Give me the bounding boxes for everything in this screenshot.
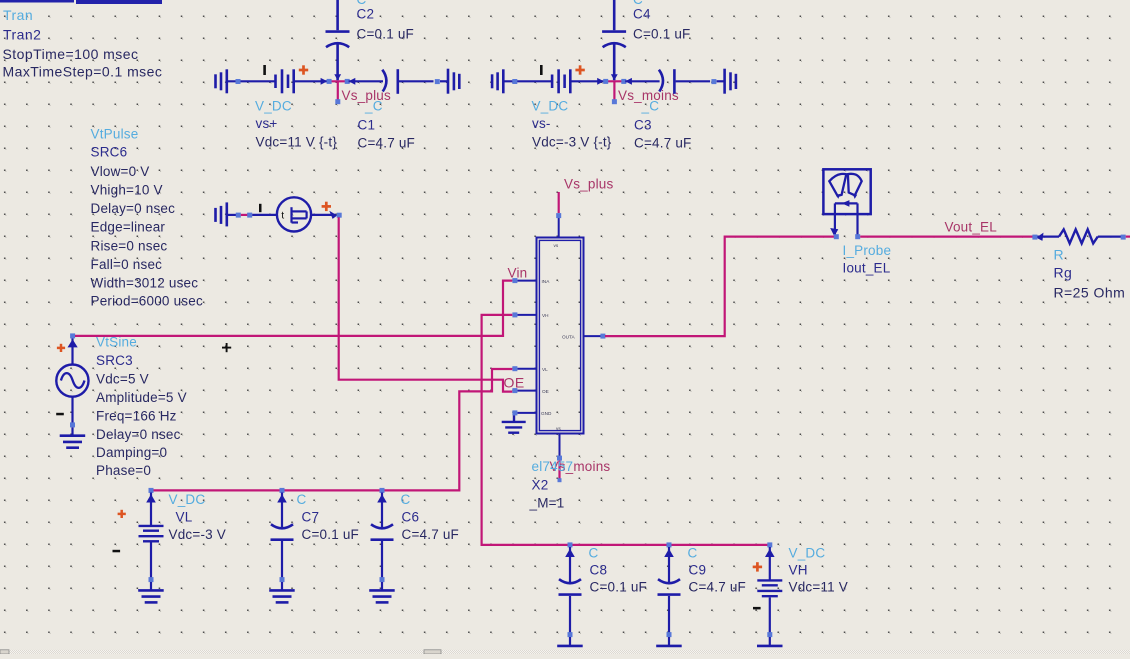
svg-text:OE: OE xyxy=(542,389,549,394)
wire to source circle xyxy=(252,214,277,216)
svg-text:C=0.1 uF: C=0.1 uF xyxy=(590,580,648,595)
capacitor C7 labels xyxy=(297,492,360,542)
resistor R Rg xyxy=(1036,229,1121,243)
svg-text:INA: INA xyxy=(542,279,551,284)
ground vs- chain left xyxy=(492,69,503,93)
svg-text:Amplitude=5 V: Amplitude=5 V xyxy=(96,390,187,405)
svg-text:C3: C3 xyxy=(634,118,652,133)
svg-text:vs+: vs+ xyxy=(256,116,278,131)
capacitor C6 labels xyxy=(401,492,460,542)
svg-text:C: C xyxy=(401,492,411,507)
svg-text:C9: C9 xyxy=(689,563,707,578)
I_Probe pin squares xyxy=(834,234,839,239)
svg-text:GND: GND xyxy=(541,411,552,416)
pin square xyxy=(236,213,241,218)
svg-text:R: R xyxy=(1054,246,1065,262)
VtPulse SRC6 labels xyxy=(91,127,203,309)
minus sign VH xyxy=(753,607,761,610)
svg-text:R=25 Ohm: R=25 Ohm xyxy=(1054,284,1126,300)
plus sign VL xyxy=(118,510,126,518)
svg-text:Vin: Vin xyxy=(508,266,528,281)
I_Probe meter xyxy=(823,169,870,234)
current label I xyxy=(263,65,266,75)
svg-text:C=0.1 uF: C=0.1 uF xyxy=(633,27,691,42)
svg-text:V_DC: V_DC xyxy=(169,492,206,507)
svg-text:C=4.7 uF: C=4.7 uF xyxy=(689,580,747,595)
V_DC vs- labels xyxy=(532,99,612,150)
svg-text:Vdc=11 V: Vdc=11 V xyxy=(789,580,849,595)
node Vs_moins junction xyxy=(597,74,632,104)
VtSine SRC3 labels xyxy=(96,335,187,479)
ground C9 xyxy=(656,646,682,652)
wire SRC3 to INA pin (node Vin) xyxy=(75,281,512,336)
ground VH xyxy=(757,646,783,652)
VtPulse source SRC6 xyxy=(277,197,311,231)
svg-text:_M=1: _M=1 xyxy=(529,496,565,511)
svg-text:Vlow=0 V: Vlow=0 V xyxy=(91,164,150,179)
V_DC VH battery xyxy=(757,542,782,645)
ground C8 xyxy=(557,646,583,652)
Tran controller box edge xyxy=(0,0,162,4)
svg-text:Vdc=-3 V {-t}: Vdc=-3 V {-t} xyxy=(532,135,612,150)
wire stub node Vs_plus above X2 xyxy=(558,192,560,213)
svg-text:C=4.7 uF: C=4.7 uF xyxy=(634,136,692,151)
pin square C3 right xyxy=(711,79,716,84)
plus sign SRC6 xyxy=(322,202,331,211)
scrollbar strip xyxy=(0,650,1130,654)
pin square xyxy=(337,213,342,218)
wire node to C3 xyxy=(625,80,659,82)
svg-text:C=0.1 uF: C=0.1 uF xyxy=(357,27,415,42)
svg-text:Tran2: Tran2 xyxy=(3,27,41,43)
capacitor C7 xyxy=(271,488,294,590)
wire VH pin to bottom rail xyxy=(482,315,768,545)
svg-text:_C: _C xyxy=(641,99,660,114)
svg-text:Rise=0 nsec: Rise=0 nsec xyxy=(91,239,168,254)
ground vs+ chain right xyxy=(448,69,459,94)
svg-text:SRC3: SRC3 xyxy=(96,353,133,368)
svg-text:C7: C7 xyxy=(302,510,320,525)
wire battery to node Vs_plus xyxy=(294,80,327,82)
svg-text:Vdc=11 V {-t}: Vdc=11 V {-t} xyxy=(256,135,338,150)
svg-text:OE: OE xyxy=(504,375,525,391)
wire SRC6 to corner xyxy=(311,214,336,216)
minus sign VL xyxy=(113,550,121,553)
wire OUTA to I_Probe xyxy=(605,237,834,337)
svg-text:Delay=0 nsec: Delay=0 nsec xyxy=(91,201,176,216)
node Vs_plus junction xyxy=(321,74,356,104)
wire R to edge xyxy=(1126,236,1130,238)
svg-text:Vout_EL: Vout_EL xyxy=(945,219,998,234)
ground VL xyxy=(138,590,164,602)
ground VtPulse xyxy=(216,202,227,226)
svg-text:C=4.7 uF: C=4.7 uF xyxy=(402,527,460,542)
plus marker on wire xyxy=(222,343,231,352)
svg-text:Delay=0 nsec: Delay=0 nsec xyxy=(96,427,181,442)
plus sign vs- xyxy=(575,65,584,74)
svg-text:Edge=linear: Edge=linear xyxy=(91,220,166,235)
resistor pin squares xyxy=(1032,235,1037,240)
wire ground to V_DC vs- xyxy=(503,80,552,82)
svg-text:Tran: Tran xyxy=(3,7,33,23)
resistor R labels xyxy=(1054,246,1126,300)
svg-text:VtPulse: VtPulse xyxy=(91,127,139,142)
svg-text:VH: VH xyxy=(542,313,549,318)
X2 labels el7457 Vs_moins overlap xyxy=(529,459,611,511)
svg-text:X2: X2 xyxy=(532,478,549,493)
minus sign SRC3 xyxy=(56,413,64,416)
svg-text:vs: vs xyxy=(556,426,561,431)
wire battery to node Vs_moins xyxy=(570,80,603,82)
plus sign vs+ xyxy=(299,65,308,74)
svg-text:SRC6: SRC6 xyxy=(91,145,128,160)
svg-text:vs-: vs- xyxy=(532,116,551,131)
svg-text:_C: _C xyxy=(364,99,383,114)
current label I xyxy=(259,204,262,212)
plus sign SRC3 xyxy=(57,344,65,352)
svg-text:Width=3012 usec: Width=3012 usec xyxy=(91,276,199,291)
wire ground to V_DC vs+ xyxy=(227,80,276,82)
V_DC vs+ labels xyxy=(255,99,337,150)
svg-text:OUTA: OUTA xyxy=(562,335,576,340)
capacitor C4 xyxy=(602,0,626,80)
VtSine source SRC3 xyxy=(56,333,88,435)
svg-text:V_DC: V_DC xyxy=(255,99,292,114)
wire node to C1 xyxy=(349,80,383,82)
V_DC vs+ battery xyxy=(276,69,294,93)
svg-text:Vdc=-3 V: Vdc=-3 V xyxy=(169,527,227,542)
svg-text:vs: vs xyxy=(554,243,559,248)
pin square xyxy=(247,213,252,218)
capacitor C1 labels xyxy=(358,99,416,151)
svg-text:Phase=0: Phase=0 xyxy=(96,463,151,478)
svg-text:C2: C2 xyxy=(357,7,375,22)
ground C7 xyxy=(269,590,295,602)
svg-text:VH: VH xyxy=(789,563,808,578)
svg-text:MaxTimeStep=0.1 msec: MaxTimeStep=0.1 msec xyxy=(3,64,163,80)
capacitor C8 labels xyxy=(589,545,648,594)
plus sign VH xyxy=(753,562,762,571)
svg-text:Iout_EL: Iout_EL xyxy=(843,260,891,275)
pin square xyxy=(512,79,517,84)
svg-text:C8: C8 xyxy=(590,563,608,578)
I_Probe bracket arrow xyxy=(842,200,850,207)
svg-text:C: C xyxy=(688,545,698,560)
svg-text:Damping=0: Damping=0 xyxy=(96,445,167,460)
pin square small xyxy=(558,478,562,482)
capacitor C8 xyxy=(559,542,582,645)
pin stubs X2 xyxy=(517,218,601,456)
svg-text:el7457: el7457 xyxy=(532,459,574,474)
svg-text:StopTime=100 msec: StopTime=100 msec xyxy=(3,46,139,62)
V_DC vs- battery xyxy=(552,69,570,93)
svg-text:V_DC: V_DC xyxy=(532,99,569,114)
svg-text:VL: VL xyxy=(176,510,193,525)
capacitor C3 labels xyxy=(634,99,692,151)
ground X2 GND pin xyxy=(502,415,526,432)
svg-text:C: C xyxy=(297,492,307,507)
op-amp X2 el7457 body xyxy=(537,238,584,434)
svg-text:Vs_plus: Vs_plus xyxy=(564,177,613,192)
ground vs- chain right xyxy=(725,69,736,94)
wire I_Probe to R xyxy=(860,236,1033,238)
svg-text:I_Probe: I_Probe xyxy=(843,243,892,258)
svg-text:C=0.1 uF: C=0.1 uF xyxy=(302,527,360,542)
svg-text:C=4.7 uF: C=4.7 uF xyxy=(358,136,416,151)
pin name labels X2 xyxy=(541,243,576,431)
I_Probe leg arrow xyxy=(830,228,838,236)
ground SRC3 xyxy=(60,436,85,448)
V_DC VL labels xyxy=(169,492,227,542)
capacitor C6 xyxy=(371,488,394,590)
pin square C1 right xyxy=(435,79,440,84)
svg-text:C: C xyxy=(589,545,599,560)
svg-text:C4: C4 xyxy=(633,7,651,22)
svg-text:C1: C1 xyxy=(358,118,376,133)
capacitor C3 xyxy=(659,69,724,94)
capacitor C9 xyxy=(658,542,681,645)
wire ground to SRC6 xyxy=(227,214,237,216)
wire SRC6 to OE pin xyxy=(339,217,513,391)
wire VL battery to VL pin xyxy=(151,369,512,490)
svg-text:Rg: Rg xyxy=(1054,264,1073,280)
svg-text:C6: C6 xyxy=(402,510,420,525)
svg-text:Vdc=5 V: Vdc=5 V xyxy=(96,372,149,387)
Tran controller labels Tran2 xyxy=(3,7,163,80)
svg-text:V_DC: V_DC xyxy=(789,545,826,560)
current label I xyxy=(540,65,543,75)
V_DC VH labels xyxy=(789,545,849,594)
wire end arrow xyxy=(329,211,337,219)
ground C6 xyxy=(369,590,395,602)
capacitor C1 xyxy=(382,69,447,94)
svg-text:t: t xyxy=(281,210,284,222)
svg-text:Vhigh=10 V: Vhigh=10 V xyxy=(91,183,163,198)
capacitor C2 labels xyxy=(357,0,415,42)
capacitor C9 labels xyxy=(688,545,747,594)
svg-text:Freq=166 Hz: Freq=166 Hz xyxy=(96,409,177,424)
pin square xyxy=(236,79,241,84)
wire (magenta link) xyxy=(241,214,248,216)
V_DC VL battery xyxy=(139,488,164,590)
capacitor C2 xyxy=(326,0,350,80)
svg-text:Period=6000 usec: Period=6000 usec xyxy=(91,294,203,309)
svg-text:Fall=0 nsec: Fall=0 nsec xyxy=(91,257,163,272)
ground vs+ chain left xyxy=(216,69,227,93)
pin squares X2 xyxy=(512,213,605,461)
wire stub node Vs_moins below X2 xyxy=(558,461,560,479)
capacitor C4 labels xyxy=(633,0,691,42)
I_Probe labels xyxy=(843,243,892,275)
svg-text:VL: VL xyxy=(542,367,548,372)
